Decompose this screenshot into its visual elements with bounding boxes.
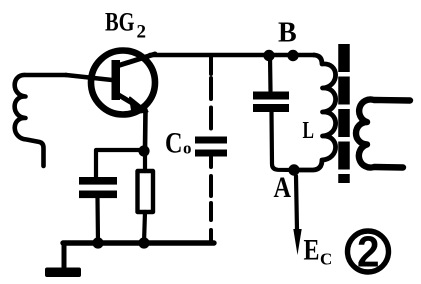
wire base <box>66 75 112 80</box>
resistor emitter <box>138 171 154 212</box>
inductor L <box>294 55 336 170</box>
wire node to bypass cap <box>96 150 144 177</box>
transformer core (dashed bar) <box>338 44 350 183</box>
antenna coil left <box>15 75 66 166</box>
svg-text:C: C <box>165 127 183 160</box>
label BG2 <box>105 8 146 43</box>
circled 2 <box>348 228 389 277</box>
node emitter junction dot <box>138 145 149 156</box>
wire emitter down <box>143 110 148 150</box>
arrow Ec (down) <box>293 229 301 255</box>
wire node to resistor <box>143 155 147 171</box>
transistor emitter line with arrow <box>117 94 148 114</box>
wire B to tank capacitor <box>268 56 273 91</box>
wire dashed C0 branch lower <box>209 157 213 241</box>
node B dot (capacitor branch junction) <box>263 50 274 61</box>
node dot rail under capacitor <box>92 237 103 248</box>
node B dot <box>287 50 298 61</box>
transistor collector line <box>117 54 155 66</box>
wire top (collector to B) <box>150 53 314 58</box>
capacitor C0 <box>195 137 227 157</box>
svg-text:E: E <box>304 234 320 267</box>
wire bottom rail <box>63 240 214 245</box>
ground <box>45 268 81 278</box>
transformer secondary coil <box>356 99 410 167</box>
svg-text:C: C <box>320 250 332 269</box>
svg-text:A: A <box>274 171 292 204</box>
svg-text:o: o <box>183 139 192 158</box>
wire bypass cap to rail <box>95 198 100 243</box>
svg-text:2: 2 <box>137 22 147 43</box>
wire A to Ec arrow <box>296 176 297 230</box>
label Ec <box>304 234 333 269</box>
node A dot <box>288 164 299 175</box>
svg-text:L: L <box>303 118 315 144</box>
svg-text:BG: BG <box>105 8 135 37</box>
node dot rail under resistor <box>138 237 149 248</box>
label C0 <box>165 127 192 160</box>
transistor BG2 circle <box>91 51 155 115</box>
wire dashed C0 branch upper <box>209 57 213 136</box>
wire tank capacitor to A <box>272 112 295 170</box>
capacitor tank <box>253 92 289 113</box>
capacitor bypass (emitter) <box>79 177 117 198</box>
wire rail to ground <box>62 243 67 269</box>
svg-text:2: 2 <box>357 228 380 277</box>
transistor base bar <box>112 60 121 100</box>
wire resistor to rail <box>144 212 145 243</box>
svg-text:B: B <box>278 18 297 49</box>
